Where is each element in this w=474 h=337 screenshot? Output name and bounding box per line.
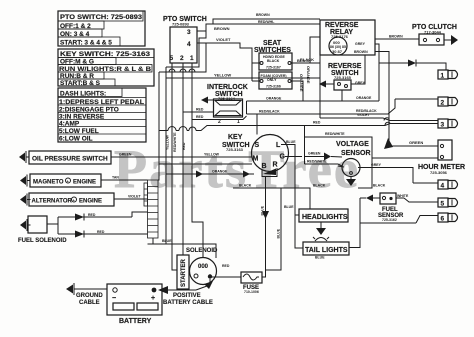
svg-text:ALTERNATOR: ALTERNATOR (32, 199, 73, 205)
svg-text:MAGNETO: MAGNETO (33, 180, 64, 186)
svg-text:725-3167: 725-3167 (266, 66, 281, 70)
svg-text:RED: RED (97, 230, 105, 234)
svg-text:BROWN: BROWN (389, 35, 403, 39)
svg-text:VOLTAGE: VOLTAGE (336, 141, 369, 148)
svg-text:4: 4 (441, 183, 445, 190)
svg-text:BLACK: BLACK (373, 184, 386, 188)
svg-text:B: B (262, 163, 267, 170)
svg-text:725-3166: 725-3166 (266, 85, 281, 89)
svg-text:L: L (276, 142, 281, 149)
svg-text:STARTER: STARTER (181, 258, 187, 287)
svg-text:OFF:1 & 2: OFF:1 & 2 (60, 23, 91, 30)
svg-text:725-3165: 725-3165 (334, 75, 352, 80)
svg-text:GROUND: GROUND (76, 293, 103, 299)
svg-text:BLACK: BLACK (300, 57, 314, 62)
svg-text:2: 2 (441, 100, 445, 107)
svg-text:2:DISENGAGE PTO: 2:DISENGAGE PTO (59, 107, 119, 114)
svg-text:GREEN: GREEN (308, 152, 321, 156)
svg-text:OFF:M & G: OFF:M & G (60, 59, 94, 66)
svg-text:G: G (280, 154, 286, 161)
svg-text:4: 4 (187, 41, 191, 48)
svg-text:BLUE: BLUE (162, 239, 172, 243)
svg-text:START:B & S: START:B & S (60, 80, 101, 87)
svg-text:YELLOW: YELLOW (204, 153, 220, 157)
svg-text:REVERSE: REVERSE (328, 63, 362, 70)
svg-text:1: 1 (190, 55, 194, 62)
svg-text:RED: RED (222, 264, 230, 268)
svg-text:ORANGE: ORANGE (266, 97, 282, 101)
svg-text:1:DEPRESS LEFT PEDAL: 1:DEPRESS LEFT PEDAL (59, 99, 144, 106)
svg-text:RED/WHITE: RED/WHITE (325, 132, 345, 136)
svg-text:5: 5 (170, 55, 174, 62)
svg-text:5: 5 (441, 201, 445, 208)
svg-text:GREY: GREY (355, 42, 366, 46)
svg-text:SEAT: SEAT (263, 40, 282, 47)
svg-text:RED: RED (88, 213, 96, 217)
svg-text:BROWN: BROWN (354, 50, 368, 54)
svg-text:TAIL LIGHTS: TAIL LIGHTS (305, 247, 348, 254)
svg-text:HEADLIGHTS: HEADLIGHTS (302, 214, 348, 221)
svg-text:OIL PRESSURE SWITCH: OIL PRESSURE SWITCH (32, 156, 108, 163)
svg-text:REVERSE: REVERSE (325, 22, 359, 29)
svg-text:000: 000 (198, 264, 209, 270)
svg-text:BLUE: BLUE (315, 256, 325, 260)
svg-text:RED/WHITE: RED/WHITE (173, 132, 177, 152)
svg-text:RED: RED (182, 142, 186, 150)
svg-text:2: 2 (180, 55, 184, 62)
svg-text:FUEL SOLENOID: FUEL SOLENOID (18, 238, 67, 244)
svg-text:VIOLET: VIOLET (357, 113, 371, 117)
svg-text:6:LOW OIL: 6:LOW OIL (59, 136, 93, 143)
svg-text:725-3056: 725-3056 (430, 170, 448, 175)
svg-text:INTERLOCK: INTERLOCK (207, 84, 248, 91)
svg-text:ON: 3 & 4: ON: 3 & 4 (60, 31, 90, 38)
svg-text:VIOLET: VIOLET (216, 37, 231, 42)
svg-text:BATTERY: BATTERY (119, 318, 152, 325)
svg-text:RED/BLACK: RED/BLACK (259, 110, 280, 114)
svg-text:30 87: 30 87 (332, 49, 343, 54)
svg-text:YELLOW: YELLOW (214, 73, 231, 78)
svg-text:BLACK: BLACK (267, 59, 280, 63)
svg-text:R: R (273, 162, 278, 169)
svg-text:BLUE: BLUE (284, 205, 294, 209)
svg-text:TAN: TAN (112, 176, 119, 180)
svg-text:KEY: KEY (228, 134, 243, 141)
svg-text:BLACK: BLACK (239, 184, 252, 188)
svg-text:GREY: GREY (371, 163, 382, 167)
svg-text:BROWN: BROWN (214, 26, 230, 31)
svg-text:RED/WHL: RED/WHL (258, 20, 275, 24)
svg-text:RED: RED (196, 115, 204, 119)
svg-text:CABLE: CABLE (79, 300, 100, 306)
svg-text:710-1006: 710-1006 (244, 290, 259, 294)
svg-text:RED/WHITE: RED/WHITE (307, 160, 327, 164)
svg-text:+: + (151, 295, 155, 302)
svg-text:1: 1 (441, 73, 445, 80)
svg-text:6: 6 (441, 216, 445, 223)
svg-text:ORANGE: ORANGE (212, 170, 228, 174)
svg-text:GREEN: GREEN (119, 153, 132, 157)
svg-text:4:AMP: 4:AMP (59, 121, 80, 128)
svg-text:SOLENOID: SOLENOID (186, 248, 218, 254)
svg-text:ORANGE: ORANGE (356, 96, 372, 100)
svg-text:725-0893: 725-0893 (172, 22, 190, 27)
svg-text:5:LOW FUEL: 5:LOW FUEL (59, 128, 99, 135)
svg-text:ENGINE: ENGINE (73, 180, 96, 186)
svg-text:GREEN: GREEN (409, 140, 423, 145)
svg-text:DASH LIGHTS:: DASH LIGHTS: (60, 91, 106, 98)
svg-text:3:IN REVERSE: 3:IN REVERSE (59, 114, 105, 121)
svg-text:3: 3 (441, 122, 445, 129)
svg-text:YELLOW: YELLOW (166, 134, 170, 150)
svg-text:−: − (112, 295, 116, 302)
svg-text:BATTERY CABLE: BATTERY CABLE (163, 300, 213, 306)
svg-text:S: S (255, 142, 260, 149)
svg-text:M: M (253, 156, 259, 163)
svg-text:SENSOR: SENSOR (341, 150, 371, 157)
svg-text:BLUE: BLUE (277, 228, 281, 238)
svg-text:725-3163: 725-3163 (226, 147, 244, 152)
svg-text:BLUE: BLUE (286, 140, 296, 144)
svg-text:ENGINE: ENGINE (79, 199, 102, 205)
svg-text:RUN:B & R: RUN:B & R (60, 73, 94, 80)
svg-text:KEY SWITCH: 725-3163: KEY SWITCH: 725-3163 (60, 51, 150, 58)
svg-text:RED: RED (313, 121, 321, 125)
svg-text:PTO SWITCH: 725-0893: PTO SWITCH: 725-0893 (60, 14, 142, 21)
svg-text:3: 3 (187, 29, 191, 36)
svg-text:POSITIVE: POSITIVE (173, 293, 201, 299)
svg-text:ONLY: ONLY (267, 78, 277, 82)
svg-text:BROWN: BROWN (256, 13, 270, 17)
svg-text:WHITE: WHITE (397, 194, 409, 198)
svg-text:725-3162: 725-3162 (382, 218, 397, 222)
svg-text:START: 3 & 4 & 5: START: 3 & 4 & 5 (60, 40, 112, 47)
svg-text:ORANGE: ORANGE (306, 66, 311, 84)
svg-text:RED: RED (196, 108, 204, 112)
svg-text:BLACK: BLACK (313, 184, 326, 188)
svg-text:VIOLET: VIOLET (128, 195, 142, 199)
